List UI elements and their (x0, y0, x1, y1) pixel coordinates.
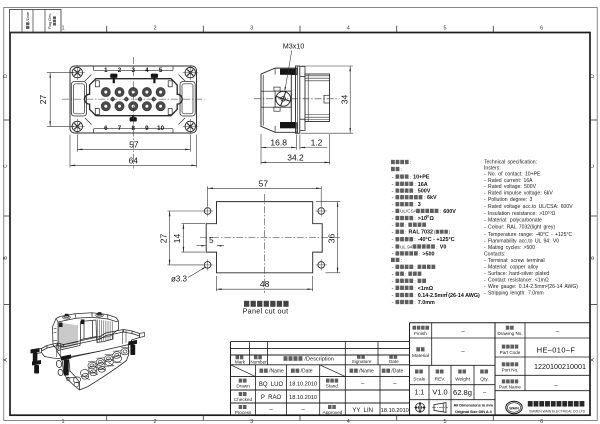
dimension 14 extension lines (182, 223, 206, 225)
svg-text:- Material: polycarbonate: - Material: polycarbonate (484, 218, 542, 224)
svg-text:36: 36 (326, 234, 336, 244)
dimension 16.8 extension lines (260, 134, 262, 165)
company name 厦门唯恩电气有限公司 (528, 401, 533, 407)
panel hole 2 (ø3.3) (318, 208, 325, 215)
insert shoulder blocks (300, 67, 305, 77)
svg-text:3: 3 (418, 202, 421, 208)
name/date sub-headers (260, 369, 264, 373)
svg-text:- Stripping length: 7.0mm: - Stripping length: 7.0mm (484, 290, 544, 296)
dimension 27 (front) extension lines (47, 72, 74, 74)
dimension 34.2 (261, 161, 330, 163)
small guide holes on centerline (111, 97, 115, 101)
insert polarization slots (95, 81, 99, 87)
svg-text:- Temperature range: -40°C -: - Temperature range: -40°C - +125°C (484, 232, 573, 238)
panel cutout outline (206, 202, 322, 273)
svg-text:18.10.2010: 18.10.2010 (289, 382, 317, 388)
svg-text:C: C (3, 164, 9, 168)
svg-text::: : (436, 245, 437, 250)
svg-text:UL 94: UL 94 (400, 244, 413, 249)
3d cover tower edges (56, 313, 119, 350)
svg-text:9: 9 (145, 125, 149, 132)
svg-text:16.8: 16.8 (270, 138, 287, 148)
contact 3 (129, 88, 138, 97)
svg-text:Ω: Ω (429, 216, 434, 222)
svg-text:2: 2 (153, 419, 156, 424)
dimension 36 (vertical) (337, 202, 339, 273)
screw boss square (275, 91, 291, 107)
svg-text:RAL 7032: RAL 7032 (409, 230, 433, 236)
svg-text:- Terminal: screw terminal: - Terminal: screw terminal (484, 258, 545, 264)
svg-text:27: 27 (38, 95, 48, 105)
svg-text:5: 5 (209, 236, 214, 245)
svg-text:/Name: /Name (269, 369, 284, 375)
svg-text:Port No.: Port No. (502, 368, 519, 373)
caption 面板安装开孔图 (244, 301, 249, 307)
svg-text::: : (414, 203, 415, 208)
3d housing skirt and insert face (56, 344, 129, 391)
svg-text:/Date: /Date (25, 11, 30, 21)
cell 表面处理/Finish (413, 326, 417, 330)
dimension 14 (182, 224, 184, 252)
svg-text::: : (414, 266, 415, 271)
svg-text:Scale: Scale (413, 376, 425, 382)
svg-text:7: 7 (118, 125, 122, 132)
coding key bottom (black) (130, 117, 137, 121)
header cell 标记/Mark (236, 355, 240, 359)
contact 5 (156, 88, 165, 97)
svg-text:-: - (392, 265, 394, 271)
svg-text:/Date: /Date (301, 369, 313, 375)
svg-text:1220100210001: 1220100210001 (534, 362, 586, 371)
corner chamfer marks (85, 75, 92, 82)
dimension 27 (front) (49, 73, 51, 127)
dimension 57 (panel) extension lines (207, 186, 209, 206)
mounting screw 3 (front view) (72, 121, 82, 131)
svg-text:-: - (392, 230, 394, 236)
svg-text:Signature: Signature (352, 359, 372, 364)
row Checked (239, 392, 243, 396)
front view flange outline (70, 66, 197, 133)
mounting screw 2 (front view) (185, 67, 195, 77)
3d cover inner channel (81, 320, 97, 340)
side view centerline (254, 98, 340, 100)
dimension 36 extension lines (316, 201, 340, 203)
panel hole 4 (ø3.3) (318, 262, 325, 269)
svg-text::: : (410, 176, 411, 181)
contact 8 (129, 102, 138, 111)
svg-text:6: 6 (104, 125, 108, 132)
mounting screw 1 (front view) (72, 67, 82, 77)
svg-text:-: - (392, 251, 394, 257)
svg-text:V1.0: V1.0 (432, 388, 447, 397)
contact 10 (156, 102, 165, 111)
rotated "日期/Date" label (25, 11, 30, 29)
svg-text:3: 3 (250, 419, 253, 424)
svg-text::: : (419, 252, 420, 257)
svg-text:- Pollution degree: 3: - Pollution degree: 3 (484, 197, 532, 203)
svg-text::: : (414, 294, 415, 299)
svg-text:Weight: Weight (455, 376, 471, 382)
svg-text:600V: 600V (443, 209, 456, 215)
svg-text:Process: Process (235, 410, 252, 415)
svg-text:0.14-2.5mm: 0.14-2.5mm (418, 293, 448, 299)
svg-text:-: - (392, 286, 394, 292)
svg-text:V0: V0 (440, 245, 447, 251)
svg-text:62.8g: 62.8g (453, 388, 472, 397)
svg-text:3: 3 (250, 26, 253, 32)
svg-text:10+PE: 10+PE (413, 175, 430, 181)
svg-text:>500: >500 (422, 251, 434, 257)
coding key top 1 (black) (110, 74, 117, 78)
dimension 27 (panel) (169, 211, 171, 265)
svg-text:Panel cut out: Panel cut out (243, 307, 289, 316)
svg-text:18.10.2010: 18.10.2010 (289, 395, 317, 401)
projection symbol (cone view) (434, 403, 446, 413)
svg-text:WAIN: WAIN (509, 407, 519, 411)
svg-text:1.2: 1.2 (311, 138, 323, 148)
svg-text:ø3.3: ø3.3 (171, 275, 188, 284)
title block middle section (409, 323, 411, 416)
header cell 签名/Signature (357, 355, 361, 359)
svg-text:6: 6 (540, 419, 543, 424)
svg-text::: : (401, 259, 402, 264)
spec cn: 插芯: (391, 167, 395, 171)
svg-text:- Surface: hard-silver plated: - Surface: hard-silver plated (484, 271, 549, 277)
svg-text::: : (401, 168, 402, 173)
contact 7 (115, 102, 124, 111)
3d contact cavities row 1 (87, 348, 129, 370)
svg-text:YY LIN: YY LIN (352, 408, 373, 414)
label ø3.3 with leader (188, 267, 205, 277)
cage clamp top (black) (280, 69, 296, 75)
svg-text:/Name: /Name (359, 369, 374, 375)
svg-text::: : (414, 217, 415, 222)
svg-text:All Dimensions in mm: All Dimensions in mm (454, 402, 494, 407)
svg-text:14: 14 (172, 234, 182, 244)
row Drawn (239, 379, 243, 383)
svg-text:- Flammability acc.to UL 94:: - Flammability acc.to UL 94: V0 (484, 238, 559, 244)
dimension 34.2 extension line right (329, 134, 331, 165)
svg-text::: : (414, 183, 415, 188)
svg-text:- Contact resistance: <1mΩ: - Contact resistance: <1mΩ (484, 277, 549, 283)
row Process (239, 405, 243, 409)
svg-text:Approved: Approved (323, 410, 343, 415)
cell 产品料号/Port No. (502, 362, 506, 366)
svg-text:Part Code: Part Code (500, 350, 521, 355)
svg-text:-: - (392, 237, 394, 243)
svg-text:Stand.: Stand. (326, 384, 339, 389)
svg-text:6kV: 6kV (427, 195, 437, 201)
insert middle groove (324, 95, 330, 103)
right side recess (180, 82, 195, 117)
svg-text:BQ LUO: BQ LUO (259, 382, 284, 388)
mounting screw 4 (front view) (185, 121, 195, 131)
3d flange end tabs (37, 333, 145, 354)
svg-text:57: 57 (259, 179, 269, 189)
svg-text:48: 48 (260, 279, 270, 289)
svg-text:-: - (392, 174, 394, 180)
diagonal cell 1 (231, 365, 256, 377)
svg-text:1: 1 (61, 419, 64, 424)
svg-text::: : (405, 231, 406, 236)
cell 材料/Material (416, 347, 420, 351)
header cell 数量/Number (254, 355, 258, 359)
svg-text:- Rated current: 16A: - Rated current: 16A (484, 178, 533, 184)
svg-text:4: 4 (347, 26, 350, 32)
header verticals (249, 342, 251, 365)
3d screw caps on cover (63, 316, 71, 320)
svg-text:- Insulation resistance: >101: - Insulation resistance: >1010Ω (484, 210, 556, 217)
svg-text:-40°C - +125°C: -40°C - +125°C (418, 237, 455, 243)
svg-text:XIAMEN WAIN ELECTRICAL CO.LTD: XIAMEN WAIN ELECTRICAL CO.LTD (529, 409, 586, 413)
svg-text:M3x10: M3x10 (283, 42, 305, 51)
cell 产品名称/Part Name (502, 379, 506, 383)
svg-text::: : (414, 301, 415, 306)
header cell 日期/Date (389, 355, 393, 359)
svg-text:-: - (392, 244, 394, 250)
svg-text:-: - (392, 188, 394, 194)
panel cutout vertical centerline (264, 194, 266, 293)
svg-text:7.0mm: 7.0mm (418, 300, 435, 306)
svg-text:<1mΩ: <1mΩ (418, 286, 434, 292)
svg-text:Original Size DIN A 4: Original Size DIN A 4 (455, 409, 493, 414)
svg-text:4: 4 (347, 419, 350, 424)
dimension 27 (panel) extension lines (168, 210, 204, 212)
svg-text::: : (414, 190, 415, 195)
svg-text:- Mating cycles: >500: - Mating cycles: >500 (484, 245, 535, 251)
diagonal cell 2 (320, 365, 346, 377)
svg-text:Material: Material (412, 353, 429, 359)
svg-text::: : (414, 287, 415, 292)
svg-text:500V: 500V (418, 189, 431, 195)
svg-text::: : (424, 196, 425, 201)
svg-text:1:1: 1:1 (414, 390, 424, 397)
svg-text:2: 2 (118, 67, 122, 74)
svg-text:UL/CSA: UL/CSA (400, 209, 418, 214)
dimension 57 (panel) (208, 187, 322, 189)
scale headers (415, 370, 419, 374)
fixing screw M3x10 (side view) (276, 91, 291, 106)
svg-text:D: D (3, 74, 9, 78)
front view vertical centerline (132, 57, 134, 169)
svg-text:Mark: Mark (235, 359, 246, 364)
svg-text:C: C (590, 164, 596, 168)
svg-text::: : (440, 210, 441, 215)
svg-text:Finish: Finish (414, 331, 427, 337)
svg-text:-: - (392, 182, 394, 188)
dimension 48 (217, 288, 313, 290)
svg-text:27: 27 (158, 234, 168, 244)
svg-text:REV.: REV. (435, 376, 446, 382)
3d black bolt right (128, 340, 137, 345)
svg-text:P RAO: P RAO (261, 395, 282, 401)
svg-text::: : (405, 224, 406, 229)
contact 6 (101, 102, 110, 111)
svg-text:1: 1 (104, 67, 108, 74)
svg-text:-: - (392, 300, 394, 306)
svg-text:-: - (392, 223, 394, 229)
svg-text::: : (405, 273, 406, 278)
svg-text:34: 34 (339, 95, 349, 105)
svg-text:Drawing No.: Drawing No. (497, 331, 522, 336)
svg-text:Technical specification:: Technical specification: (484, 159, 537, 165)
dimension 57 (front) extension lines (76, 135, 78, 152)
revision strip table (top-left) (10, 10, 62, 33)
contact 2 (115, 88, 124, 97)
svg-text:-: - (392, 209, 394, 215)
3d terminal cover outline (53, 313, 119, 351)
svg-text:- Colour: RAL 7032(light grey: - Colour: RAL 7032(light grey) (484, 225, 555, 231)
panel hole 1 (ø3.3) (204, 208, 211, 215)
svg-text:34.2: 34.2 (287, 153, 304, 163)
insert body with ridges (305, 74, 330, 122)
svg-text:-: - (392, 216, 394, 222)
dimension 64 (70, 164, 197, 166)
svg-text:6: 6 (540, 26, 543, 32)
dimension 48 extension lines (216, 276, 218, 291)
svg-text:1: 1 (61, 26, 64, 32)
svg-text:16A: 16A (418, 182, 428, 188)
3d black bolt far-left (31, 340, 138, 376)
svg-text:2: 2 (153, 26, 156, 32)
dimension 57 (front) (77, 148, 190, 150)
contact 9 (142, 102, 151, 111)
svg-text:64: 64 (129, 156, 139, 166)
cell 产品型号/Part Code (502, 345, 506, 349)
svg-text:5: 5 (443, 26, 446, 32)
housing inner contour (262, 75, 264, 126)
3d contact cavities row 2 (73, 355, 122, 383)
svg-text:- Rated voltage acc.to UL/CSA: - Rated voltage acc.to UL/CSA: 600V (484, 204, 573, 210)
svg-text:Checked: Checked (234, 397, 253, 402)
contact 4 (142, 88, 151, 97)
insert outline (85, 79, 183, 116)
dimension 5 (notch depth) (197, 245, 206, 247)
svg-text:Drawn: Drawn (236, 384, 250, 389)
svg-text:- Material: copper alloy: - Material: copper alloy (484, 264, 539, 270)
svg-text:-: - (392, 272, 394, 278)
svg-text:- No. of contact: 10+PE: - No. of contact: 10+PE (484, 172, 541, 178)
3d side wall openings (56, 360, 63, 368)
left side recess (71, 82, 86, 117)
svg-text:-: - (392, 202, 394, 208)
header cell 变更描述/Description (284, 356, 288, 361)
panel mounting flange plate (296, 66, 300, 133)
contact 1 (101, 88, 110, 97)
svg-text:(26-14 AWG): (26-14 AWG) (448, 293, 480, 299)
zone boundary ticks (106, 26, 108, 33)
svg-text:Number: Number (250, 359, 267, 364)
svg-text:5: 5 (443, 419, 446, 424)
title block left section border (231, 341, 410, 343)
dimension 34 extension lines (301, 65, 353, 67)
svg-text:/Description: /Description (304, 356, 334, 362)
svg-text:- Rated impulse voltage: 6kV: - Rated impulse voltage: 6kV (484, 191, 553, 197)
3d black bolt mid-left (61, 355, 71, 361)
first angle projection symbol (circle view) (415, 403, 424, 412)
svg-text::: : (414, 238, 415, 243)
dimension 1.2 (299, 135, 301, 150)
title block right section (495, 356, 590, 358)
cage clamp bottom (black) (280, 122, 296, 128)
svg-text::: : (410, 161, 411, 166)
svg-text:-: - (392, 293, 394, 299)
svg-text:5: 5 (159, 67, 163, 74)
svg-text:Contacts:: Contacts: (484, 251, 506, 257)
svg-text:57: 57 (129, 140, 139, 150)
dimension 16.8 (261, 147, 296, 149)
svg-text:-: - (392, 279, 394, 285)
dimension 34 (vertical) (349, 66, 351, 133)
svg-text:- Wire gauge: 0.14-2.5mm²(26-: - Wire gauge: 0.14-2.5mm²(26-14 AWG) (484, 284, 578, 290)
panel cutout horizontal centerline (200, 236, 342, 238)
coding key top 2 (black) (151, 74, 158, 78)
svg-text:D: D (590, 74, 596, 78)
svg-text:10: 10 (157, 125, 164, 132)
3d cover rib hatching left group (59, 320, 112, 350)
svg-text:- Rated voltage: 500V: - Rated voltage: 500V (484, 184, 537, 190)
front view horizontal centerline (62, 98, 205, 100)
side view housing body (261, 68, 297, 132)
svg-text:Qty.: Qty. (480, 376, 488, 382)
svg-text:-: - (392, 195, 394, 201)
panel hole 3 (ø3.3) (204, 262, 211, 269)
svg-text::: : (414, 280, 415, 285)
svg-text:/Date: /Date (391, 369, 403, 375)
WAIN logo (506, 401, 522, 413)
spec cn: 技术参数: (391, 160, 395, 164)
svg-text:18.10.2010: 18.10.2010 (381, 408, 409, 414)
3d cavity web lines (81, 347, 130, 377)
flange inner step lines (94, 69, 174, 71)
svg-text:Flag Des.: Flag Des. (48, 13, 52, 29)
svg-text:4: 4 (145, 67, 149, 74)
svg-text:HE–010–F: HE–010–F (537, 346, 576, 355)
rotated "Flag Des." label (48, 13, 52, 29)
spec cn: 插针: (391, 258, 395, 262)
cell 图号/Drawing No. (506, 326, 510, 330)
3d flange slab (42, 330, 140, 360)
lower verticals (255, 365, 257, 415)
3d extra detail lines (53, 328, 126, 387)
dimension 64 extension lines (69, 135, 71, 168)
svg-text:Date: Date (389, 359, 399, 364)
svg-text:Part Name: Part Name (499, 385, 521, 390)
